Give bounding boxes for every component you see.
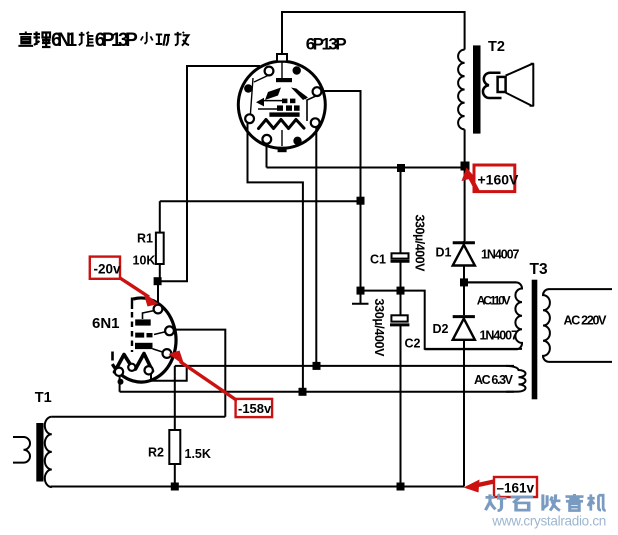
svg-text:AC110V: AC110V [477,294,511,308]
svg-text:T1: T1 [35,390,52,406]
svg-text:–161v: –161v [497,481,535,496]
svg-text:T3: T3 [530,261,548,278]
svg-text:330µ/400V: 330µ/400V [413,215,427,273]
svg-text:1N4007: 1N4007 [480,329,519,343]
svg-text:1.5K: 1.5K [185,447,211,461]
svg-text:T2: T2 [488,39,505,55]
svg-text:AC 6.3V: AC 6.3V [474,373,514,387]
svg-text:D1: D1 [436,246,452,260]
svg-text:6N1: 6N1 [92,315,120,332]
svg-text:1N4007: 1N4007 [481,248,520,262]
svg-text:6P13P: 6P13P [306,35,347,54]
svg-text:D2: D2 [433,322,449,336]
svg-text:R2: R2 [148,446,164,460]
svg-text:-158v: -158v [238,401,272,416]
svg-text:330µ/400V: 330µ/400V [372,299,386,358]
svg-text:-20v: -20v [94,262,122,277]
svg-text:C2: C2 [405,337,421,351]
svg-text:C1: C1 [370,253,386,267]
svg-text:6P13P: 6P13P [95,30,138,51]
svg-text:+160V: +160V [478,172,520,188]
svg-text:R1: R1 [137,232,153,246]
svg-text:AC 220V: AC 220V [564,314,608,328]
svg-text:6N1: 6N1 [51,30,77,51]
svg-text:10K: 10K [133,254,156,268]
svg-text:www.crystalradio.cn: www.crystalradio.cn [491,514,606,529]
